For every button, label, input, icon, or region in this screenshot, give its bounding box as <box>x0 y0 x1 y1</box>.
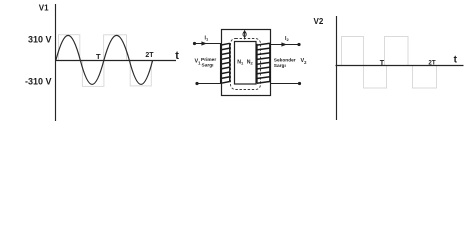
svg-text:2T: 2T <box>428 60 435 67</box>
svg-text:Primer: Primer <box>201 57 216 63</box>
svg-text:Sargı: Sargı <box>202 62 214 68</box>
envelope box B4 (negative half-cycle 2) <box>130 61 151 86</box>
sine wave V1 <box>56 35 153 84</box>
svg-text:Sargı: Sargı <box>274 63 286 69</box>
flux path (dashed) <box>231 39 261 90</box>
square box S1 (positive half-cycle 1) <box>342 37 364 66</box>
square box S4 (negative half-cycle 2) <box>413 66 437 89</box>
envelope box B2 (negative half-cycle 1) <box>82 61 104 87</box>
current arrow I1 <box>201 41 207 45</box>
svg-text:V2: V2 <box>301 58 308 65</box>
core window (inner rectangle) <box>235 42 257 85</box>
secondary bottom wire <box>271 83 300 85</box>
svg-text:V2: V2 <box>314 17 324 26</box>
primary top terminal <box>193 42 196 45</box>
primary bottom wire <box>197 83 222 85</box>
primary top wire <box>195 43 223 45</box>
core outer rectangle <box>222 30 271 96</box>
secondary winding N2 (hatched coil, right leg) <box>257 43 270 83</box>
V1 horizontal t-axis <box>55 60 176 62</box>
svg-text:Sekonder: Sekonder <box>274 58 296 64</box>
V2 horizontal t-axis <box>336 65 464 67</box>
secondary top wire <box>271 44 299 46</box>
current arrow I2 <box>281 42 287 46</box>
primary winding N1 (hatched coil, left leg) <box>221 43 230 83</box>
envelope box B1 (positive half-cycle 1) <box>59 35 80 61</box>
square box S3 (positive half-cycle 2) <box>385 37 409 66</box>
V1 vertical axis <box>55 4 57 121</box>
envelope box B3 (positive half-cycle 2) <box>104 35 127 61</box>
secondary bottom terminal <box>298 82 301 85</box>
svg-text:T: T <box>96 52 101 61</box>
svg-text:310 V: 310 V <box>28 35 52 45</box>
svg-text:2T: 2T <box>145 52 154 59</box>
V2 vertical axis <box>336 16 338 120</box>
svg-text:V1: V1 <box>39 3 49 12</box>
primary bottom terminal <box>195 82 198 85</box>
flux arrow phi <box>243 30 247 40</box>
svg-text:t: t <box>175 50 179 62</box>
svg-text:N1: N1 <box>237 60 244 66</box>
secondary top terminal <box>297 43 300 46</box>
svg-text:N2: N2 <box>247 60 254 66</box>
svg-text:-310 V: -310 V <box>25 76 52 86</box>
square box S2 (negative half-cycle 1) <box>364 66 387 89</box>
svg-text:T: T <box>380 58 385 67</box>
